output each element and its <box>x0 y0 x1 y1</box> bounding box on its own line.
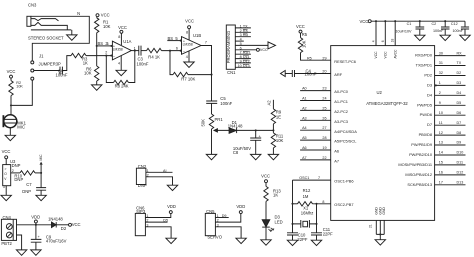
svg-text:AI: AI <box>163 169 166 173</box>
svg-text:RST: RST <box>243 51 251 55</box>
svg-text:D13: D13 <box>457 181 464 185</box>
svg-text:A2: A2 <box>267 100 272 106</box>
svg-text:28: 28 <box>322 136 326 140</box>
svg-text:10K: 10K <box>84 71 92 76</box>
svg-text:MISO/PB4/D12: MISO/PB4/D12 <box>405 172 432 177</box>
svg-text:D10: D10 <box>457 151 464 155</box>
svg-text:12: 12 <box>439 131 443 135</box>
svg-text:18: 18 <box>391 38 395 42</box>
svg-text:VCC: VCC <box>261 173 270 178</box>
svg-text:+: + <box>113 44 115 48</box>
svg-text:8: 8 <box>186 31 188 35</box>
svg-text:C2: C2 <box>432 22 437 26</box>
svg-text:8: 8 <box>322 200 324 204</box>
svg-text:+: + <box>183 39 185 43</box>
svg-text:27: 27 <box>322 126 326 130</box>
svg-text:AVCC: AVCC <box>393 49 397 59</box>
svg-text:PW/PB2/D10: PW/PB2/D10 <box>409 152 433 157</box>
svg-text:D2: D2 <box>61 226 67 231</box>
svg-text:50K: 50K <box>200 119 205 127</box>
svg-text:4: 4 <box>118 62 120 66</box>
svg-text:1: 1 <box>147 169 149 173</box>
svg-text:11: 11 <box>439 121 443 125</box>
svg-text:PB0/D8: PB0/D8 <box>419 132 432 137</box>
svg-text:+: + <box>38 235 40 239</box>
svg-text:D8: D8 <box>457 131 462 135</box>
svg-text:7: 7 <box>318 176 320 180</box>
svg-text:VDD: VDD <box>31 214 40 219</box>
svg-text:A7: A7 <box>334 159 339 164</box>
svg-text:D3: D3 <box>457 81 462 85</box>
svg-text:10K: 10K <box>103 24 111 29</box>
svg-text:2: 2 <box>240 29 242 33</box>
svg-text:1: 1 <box>134 47 136 51</box>
svg-text:R4 1K: R4 1K <box>148 54 160 59</box>
svg-text:8: 8 <box>118 35 120 39</box>
svg-text:D4: D4 <box>457 91 462 95</box>
svg-text:A5: A5 <box>302 136 307 140</box>
svg-text:D7: D7 <box>457 121 462 125</box>
svg-text:R8 24K: R8 24K <box>115 83 129 88</box>
svg-text:SIP3: SIP3 <box>136 209 146 214</box>
svg-text:17: 17 <box>439 181 443 185</box>
svg-text:VCC: VCC <box>72 222 81 227</box>
svg-text:14: 14 <box>439 151 443 155</box>
svg-text:A7: A7 <box>302 156 307 160</box>
svg-text:DNP: DNP <box>138 183 147 188</box>
svg-text:STEREO SOCKET: STEREO SOCKET <box>28 35 64 40</box>
svg-text:C8: C8 <box>233 150 239 155</box>
svg-text:100nF: 100nF <box>433 29 444 33</box>
svg-text:19: 19 <box>322 146 326 150</box>
svg-text:RD: RD <box>243 33 249 37</box>
svg-text:+: + <box>259 134 261 138</box>
svg-text:3: 3 <box>107 42 109 46</box>
svg-text:9: 9 <box>439 101 441 105</box>
svg-text:4: 4 <box>186 55 188 59</box>
svg-text:A6: A6 <box>302 146 307 150</box>
svg-text:VCC: VCC <box>101 13 110 18</box>
svg-text:15: 15 <box>439 161 443 165</box>
svg-text:2: 2 <box>217 219 219 223</box>
svg-text:6: 6 <box>240 46 242 50</box>
svg-text:10K: 10K <box>276 138 284 143</box>
svg-text:3: 3 <box>146 223 148 227</box>
svg-text:10: 10 <box>238 64 242 68</box>
svg-text:O: O <box>4 172 7 176</box>
svg-text:D6: D6 <box>457 111 462 115</box>
svg-text:C1: C1 <box>407 22 412 26</box>
svg-text:D4: D4 <box>427 92 433 97</box>
svg-text:30: 30 <box>439 51 443 55</box>
svg-text:SCK/PB5/D13: SCK/PB5/D13 <box>407 182 432 187</box>
svg-text:VCC: VCC <box>7 69 16 74</box>
svg-text:A1: A1 <box>302 97 307 101</box>
svg-text:VCC: VCC <box>359 19 368 24</box>
svg-text:20: 20 <box>322 70 326 74</box>
svg-text:JUMPER3P: JUMPER3P <box>39 62 62 67</box>
svg-text:22PF: 22PF <box>297 237 307 242</box>
svg-text:21: 21 <box>369 224 373 228</box>
svg-text:VDD: VDD <box>167 204 176 209</box>
svg-text:R12: R12 <box>303 188 311 193</box>
svg-text:D9: D9 <box>222 214 227 218</box>
svg-text:ARF: ARF <box>334 72 342 77</box>
svg-text:3: 3 <box>240 33 242 37</box>
svg-text:VCC: VCC <box>185 18 194 23</box>
svg-text:DNP: DNP <box>22 189 31 194</box>
svg-text:25: 25 <box>322 106 326 110</box>
svg-text:MIC: MIC <box>39 154 43 161</box>
svg-text:RXD/PD0: RXD/PD0 <box>415 53 433 58</box>
svg-text:VDD: VDD <box>236 204 245 209</box>
svg-text:100nF: 100nF <box>453 29 464 33</box>
svg-text:PW/D6: PW/D6 <box>420 112 432 117</box>
svg-text:TX: TX <box>457 61 462 65</box>
svg-text:N: N <box>77 11 80 16</box>
svg-text:PROGRAMMING: PROGRAMMING <box>226 31 231 64</box>
svg-text:1K: 1K <box>83 61 88 66</box>
svg-text:10: 10 <box>439 111 443 115</box>
svg-text:RX: RX <box>457 51 463 55</box>
svg-text:D2: D2 <box>457 71 462 75</box>
svg-text:DNP: DNP <box>14 177 23 182</box>
svg-text:2: 2 <box>439 91 441 95</box>
svg-text:CN1: CN1 <box>227 70 236 75</box>
svg-text:VCC: VCC <box>260 48 268 52</box>
svg-text:J1: J1 <box>39 54 44 59</box>
svg-text:DNP: DNP <box>12 163 21 168</box>
svg-text:A4/PC4/SDA: A4/PC4/SDA <box>334 129 357 134</box>
svg-text:D12: D12 <box>457 171 464 175</box>
svg-text:22: 22 <box>322 156 326 160</box>
svg-text:R5: R5 <box>302 32 308 37</box>
svg-text:OSC2-PB7: OSC2-PB7 <box>334 202 353 207</box>
svg-text:6: 6 <box>381 40 385 42</box>
svg-text:D5: D5 <box>163 219 168 223</box>
svg-text:26: 26 <box>322 116 326 120</box>
svg-text:−: − <box>183 49 185 53</box>
svg-text:RX: RX <box>243 29 249 33</box>
svg-text:A3: A3 <box>302 116 307 120</box>
svg-text:A0-PC0: A0-PC0 <box>334 89 348 94</box>
svg-text:LED: LED <box>275 219 283 224</box>
svg-text:R7 10K: R7 10K <box>181 77 195 82</box>
svg-text:−: − <box>113 54 115 58</box>
svg-text:CN2: CN2 <box>138 164 147 169</box>
svg-text:A2: A2 <box>302 106 307 110</box>
svg-text:A5/PC5/SCL: A5/PC5/SCL <box>334 139 357 144</box>
svg-text:A1-PC1: A1-PC1 <box>334 99 348 104</box>
svg-text:100nF: 100nF <box>137 62 149 67</box>
svg-text:C12: C12 <box>451 22 458 26</box>
svg-text:1M: 1M <box>303 194 309 199</box>
svg-text:1N4148: 1N4148 <box>228 123 243 128</box>
svg-text:RESET-PC6: RESET-PC6 <box>334 59 356 64</box>
svg-text:10K: 10K <box>302 40 307 48</box>
svg-text:A6: A6 <box>334 149 339 154</box>
svg-text:16Mhz: 16Mhz <box>301 211 314 216</box>
svg-text:BS_5: BS_5 <box>168 36 179 41</box>
svg-text:6: 6 <box>176 47 178 51</box>
svg-text:TX: TX <box>243 24 248 28</box>
svg-text:2: 2 <box>105 51 107 55</box>
svg-text:D7: D7 <box>427 122 432 127</box>
svg-text:>: > <box>5 167 7 171</box>
svg-text:A0: A0 <box>302 87 307 91</box>
svg-text:R5: R5 <box>307 56 312 60</box>
svg-text:10K: 10K <box>16 85 23 89</box>
svg-text:24: 24 <box>322 97 326 101</box>
svg-text:PBT2: PBT2 <box>1 241 12 246</box>
svg-text:4: 4 <box>372 40 376 42</box>
svg-text:1E: 1E <box>276 114 281 119</box>
svg-text:PD2: PD2 <box>424 73 432 78</box>
svg-text:D12: D12 <box>243 59 250 63</box>
svg-text:9: 9 <box>240 59 242 63</box>
svg-text:31: 31 <box>439 61 443 65</box>
svg-text:7: 7 <box>240 51 242 55</box>
svg-text:100nF: 100nF <box>56 72 68 77</box>
svg-text:7: 7 <box>205 41 207 45</box>
svg-text:5: 5 <box>240 42 242 46</box>
svg-text:100nF: 100nF <box>220 101 232 106</box>
svg-text:U1A: U1A <box>123 39 131 44</box>
svg-text:3: 3 <box>3 185 5 189</box>
svg-text:ATMEGA328TQFP-32: ATMEGA328TQFP-32 <box>366 101 408 106</box>
svg-text:1: 1 <box>217 214 219 218</box>
svg-text:32: 32 <box>439 71 443 75</box>
svg-text:A4: A4 <box>302 126 307 130</box>
svg-text:CN5: CN5 <box>206 209 215 214</box>
svg-text:MIC: MIC <box>17 124 25 129</box>
svg-text:100nF: 100nF <box>305 72 317 77</box>
svg-text:1K: 1K <box>273 193 278 198</box>
svg-text:3: 3 <box>217 223 219 227</box>
svg-text:OSC1: OSC1 <box>299 176 309 180</box>
svg-text:D9: D9 <box>457 141 462 145</box>
svg-text:PW/PB1/D9: PW/PB1/D9 <box>411 142 432 147</box>
svg-text:VCC: VCC <box>2 149 11 154</box>
svg-text:1: 1 <box>240 24 242 28</box>
svg-text:U1B: U1B <box>193 33 201 38</box>
svg-text:SERVO: SERVO <box>207 234 222 239</box>
svg-text:VCC: VCC <box>118 25 127 30</box>
svg-text:2: 2 <box>12 169 14 173</box>
svg-text:PW/PD5: PW/PD5 <box>417 102 432 107</box>
svg-text:2: 2 <box>147 173 149 177</box>
svg-text:470uF/16V: 470uF/16V <box>46 239 67 244</box>
svg-text:VCC: VCC <box>383 51 387 59</box>
svg-text:1N4148: 1N4148 <box>48 217 63 222</box>
svg-text:MOSI/PW/PB3/D11: MOSI/PW/PB3/D11 <box>398 162 432 167</box>
svg-text:16: 16 <box>439 171 443 175</box>
svg-text:22PF: 22PF <box>323 231 333 236</box>
svg-text:13: 13 <box>439 141 443 145</box>
svg-text:D13: D13 <box>243 64 250 68</box>
svg-text:GND: GND <box>382 207 386 215</box>
svg-text:29: 29 <box>322 56 326 60</box>
svg-text:D11: D11 <box>457 161 464 165</box>
svg-text:D5: D5 <box>457 101 462 105</box>
svg-text:TXD/PD1: TXD/PD1 <box>416 63 432 68</box>
svg-text:VCC: VCC <box>296 24 305 29</box>
svg-text:CN3: CN3 <box>28 3 37 8</box>
svg-text:10uF/10V: 10uF/10V <box>396 29 413 33</box>
svg-text:U2: U2 <box>377 90 383 95</box>
svg-text:A2-PC2: A2-PC2 <box>334 109 348 114</box>
svg-text:D3: D3 <box>427 82 432 87</box>
svg-text:23: 23 <box>322 87 326 91</box>
svg-text:C7: C7 <box>26 182 32 187</box>
svg-text:OSC1-PB6: OSC1-PB6 <box>334 179 353 184</box>
svg-text:A3-PC3: A3-PC3 <box>334 119 348 124</box>
svg-text:2: 2 <box>146 219 148 223</box>
svg-text:VCC: VCC <box>374 51 378 59</box>
svg-text:CN4: CN4 <box>3 215 12 220</box>
svg-text:1: 1 <box>439 81 441 85</box>
svg-text:PR1: PR1 <box>215 117 224 122</box>
svg-text:1: 1 <box>146 214 148 218</box>
